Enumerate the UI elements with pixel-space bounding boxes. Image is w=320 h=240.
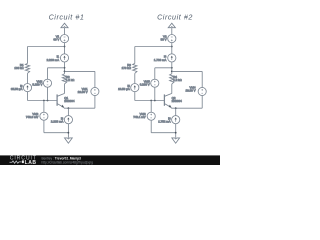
wire collector voltmeter column lower circuit 2 <box>201 96 203 109</box>
label ammeter source current circuit 2 <box>154 55 167 63</box>
label voltmeter collector circuit 2 <box>186 85 196 92</box>
wire voltmeter column upper circuit 1 <box>47 68 49 79</box>
junction to collector voltmeter circuit 2 <box>171 71 173 73</box>
emitter node wire circuit 1 <box>64 107 95 109</box>
label voltmeter base-emitter circuit 2 <box>133 112 146 119</box>
transistor Q2 <box>164 94 171 108</box>
junction base wire to lower voltmeter circuit 2 <box>150 100 152 102</box>
svg-text:http://circuitlab.com/c/48g7hp: http://circuitlab.com/c/48g7hpu2pqrg <box>42 160 94 164</box>
wire top rail to left branch circuit 1 <box>28 46 65 48</box>
svg-text:50 V: 50 V <box>161 38 167 42</box>
svg-text:1.2 kΩ: 1.2 kΩ <box>66 78 75 82</box>
CircuitLab logo zigzag <box>10 161 22 163</box>
wire junction to collector voltmeter circuit 1 <box>65 70 95 72</box>
label source V1 <box>53 35 59 42</box>
base wire circuit 2 <box>135 100 165 102</box>
label ammeter base current circuit 2 <box>118 84 130 91</box>
ammeter emitter current circuit 2 <box>172 116 180 124</box>
ammeter base current circuit 1 <box>23 84 31 92</box>
wire emitter ammeter to ground circuit 1 <box>67 124 69 138</box>
junction emitter to ammeter circuit 2 <box>175 107 177 109</box>
junction base wire to upper voltmeter circuit 1 <box>47 100 49 102</box>
resistor collector load circuit 2 <box>170 74 174 84</box>
svg-text:LAB: LAB <box>25 160 37 165</box>
label voltmeter base-supply circuit 1 <box>32 80 42 87</box>
junction ground node circuit 2 <box>175 132 177 134</box>
ammeter source current circuit 1 <box>60 54 68 62</box>
junction emitter to ammeter circuit 1 <box>68 107 70 109</box>
ammeter source current circuit 2 <box>168 54 176 62</box>
label collector resistor circuit 1 <box>66 75 75 82</box>
ammeter emitter current circuit 1 <box>64 116 72 124</box>
wire emitter ammeter to ground circuit 2 <box>175 124 177 138</box>
svg-text:10.86 V: 10.86 V <box>78 90 88 94</box>
collector stub circuit 2 <box>171 93 173 95</box>
wire junction to voltmeter top circuit 2 <box>155 67 172 69</box>
wire flag stem to source V2 <box>171 28 173 35</box>
junction to voltmeter branch circuit 1 <box>64 67 66 69</box>
wire ammeter to resistor circuit 2 <box>171 62 173 74</box>
wire voltmeter column lower circuit 2 <box>154 87 156 100</box>
wire collector voltmeter column upper circuit 1 <box>94 71 96 87</box>
wire lower voltmeter column top circuit 2 <box>150 101 152 113</box>
svg-text:8.289 V: 8.289 V <box>32 83 42 87</box>
svg-text:6.208 V: 6.208 V <box>140 83 150 87</box>
svg-text:16.59 µA: 16.59 µA <box>118 87 130 91</box>
wire base ammeter down circuit 1 <box>27 92 29 101</box>
wire collector voltmeter column upper circuit 2 <box>201 71 203 87</box>
node junction top rail circuit 2 <box>171 46 173 48</box>
svg-text:2.238 mA: 2.238 mA <box>51 119 63 123</box>
wire lower voltmeter column bottom circuit 1 <box>43 120 45 133</box>
wire base resistor to ammeter circuit 2 <box>134 73 136 83</box>
collector stub circuit 1 <box>63 93 65 95</box>
label collector resistor circuit 2 <box>173 75 182 82</box>
footer bar <box>0 155 220 165</box>
wire collector voltmeter column lower circuit 1 <box>94 96 96 109</box>
junction to collector voltmeter circuit 1 <box>64 71 66 73</box>
label transistor Q2 <box>172 96 183 103</box>
wire V2 to ammeter <box>171 43 173 54</box>
emitter stub circuit 1 <box>63 106 65 109</box>
wire V1 to ammeter <box>64 43 66 54</box>
svg-text:60 V: 60 V <box>53 38 59 42</box>
wire base resistor to ammeter circuit 1 <box>27 73 29 83</box>
wire voltmeter column lower circuit 1 <box>47 87 49 100</box>
wire top rail to left branch circuit 2 <box>135 46 172 48</box>
emitter node wire circuit 2 <box>171 107 202 109</box>
wire left rail down to resistor circuit 2 <box>134 47 136 64</box>
voltmeter base-emitter circuit 2 <box>147 112 155 120</box>
wire resistor to collector circuit 1 <box>64 84 66 94</box>
node junction top rail circuit 1 <box>64 46 66 48</box>
voltage source V2 <box>168 35 176 43</box>
svg-text:2.238 mA: 2.238 mA <box>47 58 59 62</box>
junction base wire to upper voltmeter circuit 2 <box>154 100 156 102</box>
label base resistor circuit 2 <box>122 63 132 70</box>
label voltmeter base-emitter circuit 1 <box>26 112 39 119</box>
label voltmeter collector circuit 1 <box>78 87 88 94</box>
voltage source V1 <box>60 35 68 43</box>
ground return wire circuit 1 <box>44 132 69 134</box>
ground return wire circuit 2 <box>151 132 176 134</box>
wire ammeter to resistor circuit 1 <box>64 62 66 74</box>
svg-text:170 kΩ: 170 kΩ <box>122 66 132 70</box>
emitter stub circuit 2 <box>170 106 172 109</box>
ground circuit 1 <box>65 138 73 143</box>
label transistor Q1 <box>64 96 75 103</box>
wire base ammeter down circuit 2 <box>134 92 136 101</box>
supply arrow flag circuit 2 <box>168 23 175 28</box>
svg-text:743.1 mV: 743.1 mV <box>133 115 145 119</box>
label ammeter emitter current circuit 1 <box>51 117 64 124</box>
junction ground node circuit 1 <box>68 132 70 134</box>
svg-text:2N3904: 2N3904 <box>172 99 183 103</box>
wire junction to collector voltmeter circuit 2 <box>172 70 202 72</box>
wire emitter ammeter column circuit 1 <box>67 108 69 116</box>
label ammeter emitter current circuit 2 <box>158 117 171 124</box>
svg-text:10.88 V: 10.88 V <box>186 88 196 92</box>
base wire circuit 1 <box>28 100 58 102</box>
resistor collector load circuit 1 <box>62 74 66 84</box>
wire lower voltmeter column top circuit 1 <box>43 101 45 113</box>
voltmeter collector-emitter circuit 2 <box>198 87 206 95</box>
wire lower voltmeter column bottom circuit 2 <box>150 120 152 133</box>
label ammeter base current circuit 1 <box>11 84 23 91</box>
voltmeter base-emitter circuit 1 <box>40 112 48 120</box>
wire left rail down to resistor circuit 1 <box>27 47 29 64</box>
wire flag stem to source V1 <box>64 28 66 35</box>
svg-text:100 kΩ: 100 kΩ <box>14 66 24 70</box>
svg-text:1.752 mA: 1.752 mA <box>158 119 170 123</box>
label base resistor circuit 1 <box>14 63 24 70</box>
wire emitter ammeter column circuit 2 <box>175 108 177 116</box>
svg-text:1.2 kΩ: 1.2 kΩ <box>173 78 182 82</box>
supply arrow flag circuit 1 <box>61 23 68 28</box>
transistor Q1 <box>57 94 64 108</box>
wire voltmeter column upper circuit 2 <box>154 68 156 79</box>
svg-text:Circuit #2: Circuit #2 <box>157 13 193 22</box>
resistor base circuit 1 <box>25 63 29 73</box>
ammeter base current circuit 2 <box>131 84 139 92</box>
voltmeter base-supply circuit 2 <box>151 79 159 87</box>
voltmeter base-supply circuit 1 <box>43 79 51 87</box>
junction base wire to lower voltmeter circuit 1 <box>43 100 45 102</box>
svg-text:Circuit #1: Circuit #1 <box>49 13 85 22</box>
label ammeter source current circuit 1 <box>47 55 60 63</box>
svg-text:1.736 mA: 1.736 mA <box>154 58 166 62</box>
resistor base circuit 2 <box>133 63 137 73</box>
label voltmeter base-supply circuit 2 <box>140 80 150 87</box>
svg-text:2N3904: 2N3904 <box>64 99 75 103</box>
label source V2 <box>161 35 167 42</box>
svg-text:35.56 µA: 35.56 µA <box>11 87 23 91</box>
svg-text:748.9 mV: 748.9 mV <box>26 115 38 119</box>
junction to voltmeter branch circuit 2 <box>171 67 173 69</box>
ground circuit 2 <box>172 138 180 143</box>
wire resistor to collector circuit 2 <box>171 84 173 94</box>
CircuitLab logo LAB box <box>22 160 24 163</box>
wire junction to voltmeter top circuit 1 <box>48 67 65 69</box>
voltmeter collector-emitter circuit 1 <box>91 87 99 95</box>
